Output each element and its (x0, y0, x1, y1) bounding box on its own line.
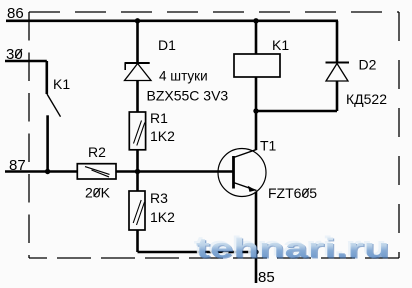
svg-text:R2: R2 (88, 144, 106, 160)
svg-text:87: 87 (9, 157, 26, 174)
svg-text:1K2: 1K2 (150, 128, 175, 144)
svg-text:КД522: КД522 (346, 91, 387, 107)
svg-text:D2: D2 (359, 57, 377, 73)
svg-text:R1: R1 (150, 110, 168, 126)
svg-text:1K2: 1K2 (150, 209, 175, 225)
svg-text:tehnari.ru: tehnari.ru (196, 232, 390, 263)
svg-text:K1: K1 (53, 76, 70, 92)
svg-text:T1: T1 (260, 138, 277, 154)
svg-text:BZX55C 3V3: BZX55C 3V3 (147, 87, 229, 103)
svg-text:FZT605: FZT605 (268, 185, 317, 201)
svg-text:30: 30 (6, 46, 23, 63)
svg-text:R3: R3 (150, 190, 168, 206)
svg-text:D1: D1 (158, 37, 176, 53)
svg-text:4 штуки: 4 штуки (159, 69, 208, 84)
svg-text:85: 85 (258, 269, 275, 286)
svg-text:K1: K1 (272, 37, 289, 53)
svg-text:20K: 20K (85, 185, 111, 201)
svg-text:86: 86 (7, 5, 24, 22)
